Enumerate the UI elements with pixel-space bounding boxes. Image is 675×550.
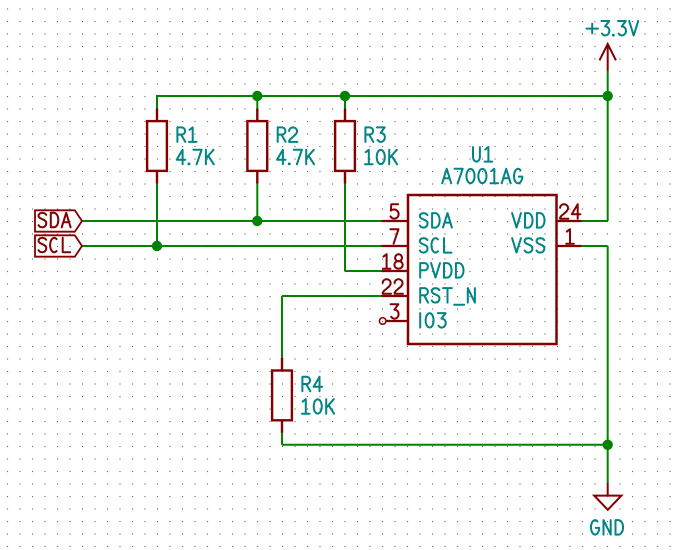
pin number 18 xyxy=(383,254,403,269)
ic U1 body xyxy=(408,195,557,344)
pin number 1 xyxy=(566,229,574,244)
pin number 22 xyxy=(383,279,403,294)
label R1 value 4.7K xyxy=(177,150,214,165)
wire GND rail horizontal xyxy=(282,444,609,446)
label SCL text xyxy=(39,238,71,253)
pin 18 (PVDD) of U1 xyxy=(382,270,409,272)
label SDA text xyxy=(39,213,71,228)
wire VSS pin 1 horizontal xyxy=(582,245,608,247)
wire top +3.3V rail horizontal xyxy=(156,95,609,97)
pin name IO3 xyxy=(420,313,446,328)
wire VDD vertical to +3.3V rail xyxy=(607,96,609,221)
label R3 value 10K xyxy=(365,150,397,165)
power symbol GND xyxy=(594,483,621,510)
resistor R4 xyxy=(272,358,292,433)
pin number 7 xyxy=(390,229,398,244)
wire R3 bottom vertical to PVDD net xyxy=(344,184,346,272)
wire GND symbol drop xyxy=(607,445,609,483)
pin 24 (VDD) of U1 xyxy=(557,220,582,222)
wire R1 bottom to SCL net xyxy=(156,184,158,248)
label R2 reference xyxy=(278,127,298,141)
label R4 value 10K xyxy=(302,399,334,414)
junction GND rail / VSS / GND symbol xyxy=(603,440,613,450)
wire R1 top vertical xyxy=(156,96,158,109)
label GND text xyxy=(591,520,623,535)
wire R2 top vertical xyxy=(256,96,258,109)
pin name PVDD xyxy=(420,263,463,278)
junction top rail / R2 xyxy=(252,91,262,101)
junction SDA net / R2 xyxy=(252,216,262,226)
wire +3.3V symbol drop xyxy=(607,71,609,96)
resistor R2 xyxy=(247,109,267,184)
wire VSS vertical to GND rail xyxy=(607,246,609,445)
label R1 reference xyxy=(177,127,196,141)
wire R2 bottom to SDA net xyxy=(256,184,258,223)
pin name RST_N xyxy=(420,288,475,305)
label +3.3V text xyxy=(587,21,639,36)
pin number 5 xyxy=(391,204,399,218)
label R4 reference xyxy=(302,377,322,392)
junction top rail / R3 xyxy=(340,91,350,101)
wire RST_N net horizontal to pin 22 xyxy=(282,295,382,297)
wire R4 bottom vertical xyxy=(281,433,283,445)
hierarchical label SCL xyxy=(35,235,82,256)
pin 3 (IO3) of U1 xyxy=(379,318,408,325)
hierarchical label SDA xyxy=(35,210,82,231)
wire PVDD net horizontal to pin 18 xyxy=(345,270,382,272)
pin number 24 xyxy=(560,204,580,219)
wire R3 top vertical xyxy=(344,96,346,109)
pin 22 (RST_N) of U1 xyxy=(382,295,409,297)
label U1 reference xyxy=(473,147,492,162)
resistor R3 xyxy=(335,109,355,184)
pin number 3 xyxy=(391,304,399,319)
resistor R1 xyxy=(147,109,167,184)
pin name VSS xyxy=(512,238,544,253)
pin 1 (VSS) of U1 xyxy=(557,245,582,247)
pin 7 (SCL) of U1 xyxy=(382,245,409,247)
pin name VDD xyxy=(512,213,544,228)
junction top rail / +3.3V / VDD xyxy=(603,91,613,101)
wire RST_N net vertical to R4 top xyxy=(281,296,283,358)
label R2 value 4.7K xyxy=(277,150,314,165)
wire SDA net horizontal xyxy=(82,220,382,222)
pin name SDA xyxy=(420,213,452,228)
label U1 value A7001AG xyxy=(442,169,522,184)
wire SCL net horizontal xyxy=(82,245,382,247)
pin name SCL xyxy=(420,238,452,253)
label R3 reference xyxy=(365,127,385,141)
pin 5 (SDA) of U1 xyxy=(382,220,409,222)
power symbol +3.3V xyxy=(600,44,616,71)
junction SCL net / R1 xyxy=(152,241,162,251)
wire VDD pin 24 horizontal xyxy=(582,220,608,222)
